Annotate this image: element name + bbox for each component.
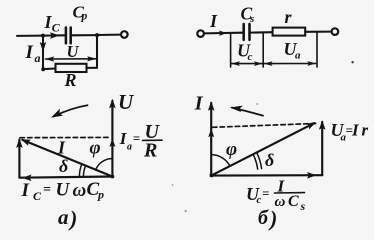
svg-text:a: a: [35, 51, 41, 65]
svg-text:R: R: [143, 140, 157, 162]
svg-text:s: s: [300, 199, 306, 213]
svg-text:s: s: [249, 13, 254, 25]
fraction bar of Uc = I/(w Cs): [275, 192, 305, 194]
svg-text:p: p: [97, 188, 104, 202]
svg-text:): ): [68, 206, 77, 231]
wire: capacitor Cs to resistor r: [251, 31, 272, 33]
svg-text:C: C: [288, 193, 299, 210]
rotation direction curved arrow diagram b: [232, 108, 263, 116]
voltage Ua dimension line with outward arrows: [264, 63, 316, 65]
node: bottom-left junction dot: [41, 67, 45, 71]
svg-text:a: a: [127, 142, 132, 153]
svg-text:δ: δ: [265, 150, 274, 170]
svg-text:I: I: [21, 180, 30, 201]
tick: Uc dimension tick at left: [230, 33, 232, 67]
svg-text:а: а: [58, 205, 69, 229]
voltage Uc dimension line with outward arrows: [232, 63, 263, 65]
svg-text:U: U: [118, 90, 135, 114]
wire: from node A to capacitor Cp: [43, 34, 65, 36]
tick: Ua dimension tick at right: [316, 32, 318, 67]
phasor Ua: right vertical with up arrow: [321, 122, 323, 175]
wire: right vertical branch down to resistor R: [96, 35, 98, 68]
tick: dimension tick between Cs and r: [262, 33, 264, 68]
svg-text:I: I: [25, 42, 34, 63]
wire: resistor r to right terminal: [305, 31, 331, 33]
svg-text:U: U: [67, 42, 80, 61]
arrow: U axis arrowhead: [109, 99, 116, 109]
phasor diagram b: I axis vertical: [210, 103, 212, 176]
arrow: I current arrowhead on wire: [219, 30, 227, 36]
angle delta double arc diagram b: [253, 152, 262, 169]
phasor U: diagonal arrow of diagram b: [211, 123, 314, 176]
phasor I: diagonal arrow of diagram a: [22, 140, 112, 177]
voltage U dimension line with outward arrows: [46, 58, 97, 60]
svg-text:=: =: [43, 183, 51, 198]
angle delta double arc diagram a: [79, 164, 85, 177]
phasor a: left vertical component with up arrow: [18, 140, 20, 178]
wire: input lead of parallel circuit a: [17, 35, 43, 37]
svg-text:): ): [268, 206, 277, 231]
svg-text:p: p: [81, 11, 88, 23]
svg-text:φ: φ: [90, 138, 101, 159]
svg-text:=: =: [133, 131, 140, 146]
node B junction dot: [95, 33, 99, 37]
fraction bar of Ia = U/R: [143, 139, 163, 141]
svg-text:ω: ω: [73, 180, 87, 201]
capacitor Cp plates: [66, 28, 71, 44]
node: origin dot diagram b: [210, 173, 214, 177]
wire: to resistor R left lead: [43, 67, 55, 70]
arrow: Ia component arrowhead on U axis: [109, 138, 115, 147]
node: origin dot diagram a: [111, 175, 115, 179]
svg-text:c: c: [257, 194, 262, 206]
wire: Ia branch vertical: [42, 36, 44, 70]
resistor R box: [56, 64, 87, 72]
arrow: IC current arrowhead: [50, 32, 60, 39]
svg-text:C: C: [33, 189, 42, 203]
phasor IC: horizontal arrow pointing left: [21, 177, 113, 178]
svg-text:δ: δ: [59, 156, 68, 176]
arrow: Ia arrowhead pointing down: [40, 42, 47, 52]
terminal: open circle output of circuit a: [121, 31, 128, 38]
arrow: I axis arrowhead: [208, 101, 215, 111]
svg-text:I: I: [57, 138, 66, 158]
node A junction dot: [41, 34, 45, 38]
svg-text:U: U: [56, 180, 71, 201]
wire: resistor R right lead: [87, 67, 98, 69]
svg-text:r: r: [285, 7, 293, 27]
phasor diagram a: U axis vertical: [111, 101, 113, 177]
resistor r box: [273, 28, 306, 36]
arrow: component arrowhead on I axis: [208, 129, 214, 138]
svg-text:a: a: [295, 50, 301, 62]
svg-text:I: I: [209, 11, 218, 31]
dashed construction line diagram b: [213, 123, 318, 127]
svg-text:R: R: [64, 70, 77, 90]
svg-text:=: =: [262, 186, 269, 201]
svg-text:C: C: [52, 21, 61, 35]
capacitor Cs plates: [244, 24, 250, 40]
phasor Uc: horizontal arrow pointing right: [211, 174, 322, 177]
terminal: right open circle of circuit b: [332, 28, 339, 35]
svg-text:c: c: [248, 51, 253, 63]
svg-text:I: I: [194, 93, 204, 115]
wire: node B to output terminal: [97, 34, 121, 36]
wire: left lead of circuit b: [204, 32, 243, 35]
svg-text:б: б: [258, 207, 269, 229]
svg-text:φ: φ: [226, 139, 237, 160]
dashed construction line diagram a: [20, 136, 111, 138]
angle phi arc diagram a: [96, 159, 113, 170]
wire: capacitor Cp to node B: [72, 34, 97, 36]
speck: [172, 184, 174, 186]
terminal: left open circle of series circuit b: [197, 30, 204, 37]
angle phi arc diagram b: [211, 155, 230, 167]
rotation direction curved arrow diagram a: [54, 105, 88, 116]
svg-text:r: r: [362, 121, 369, 140]
